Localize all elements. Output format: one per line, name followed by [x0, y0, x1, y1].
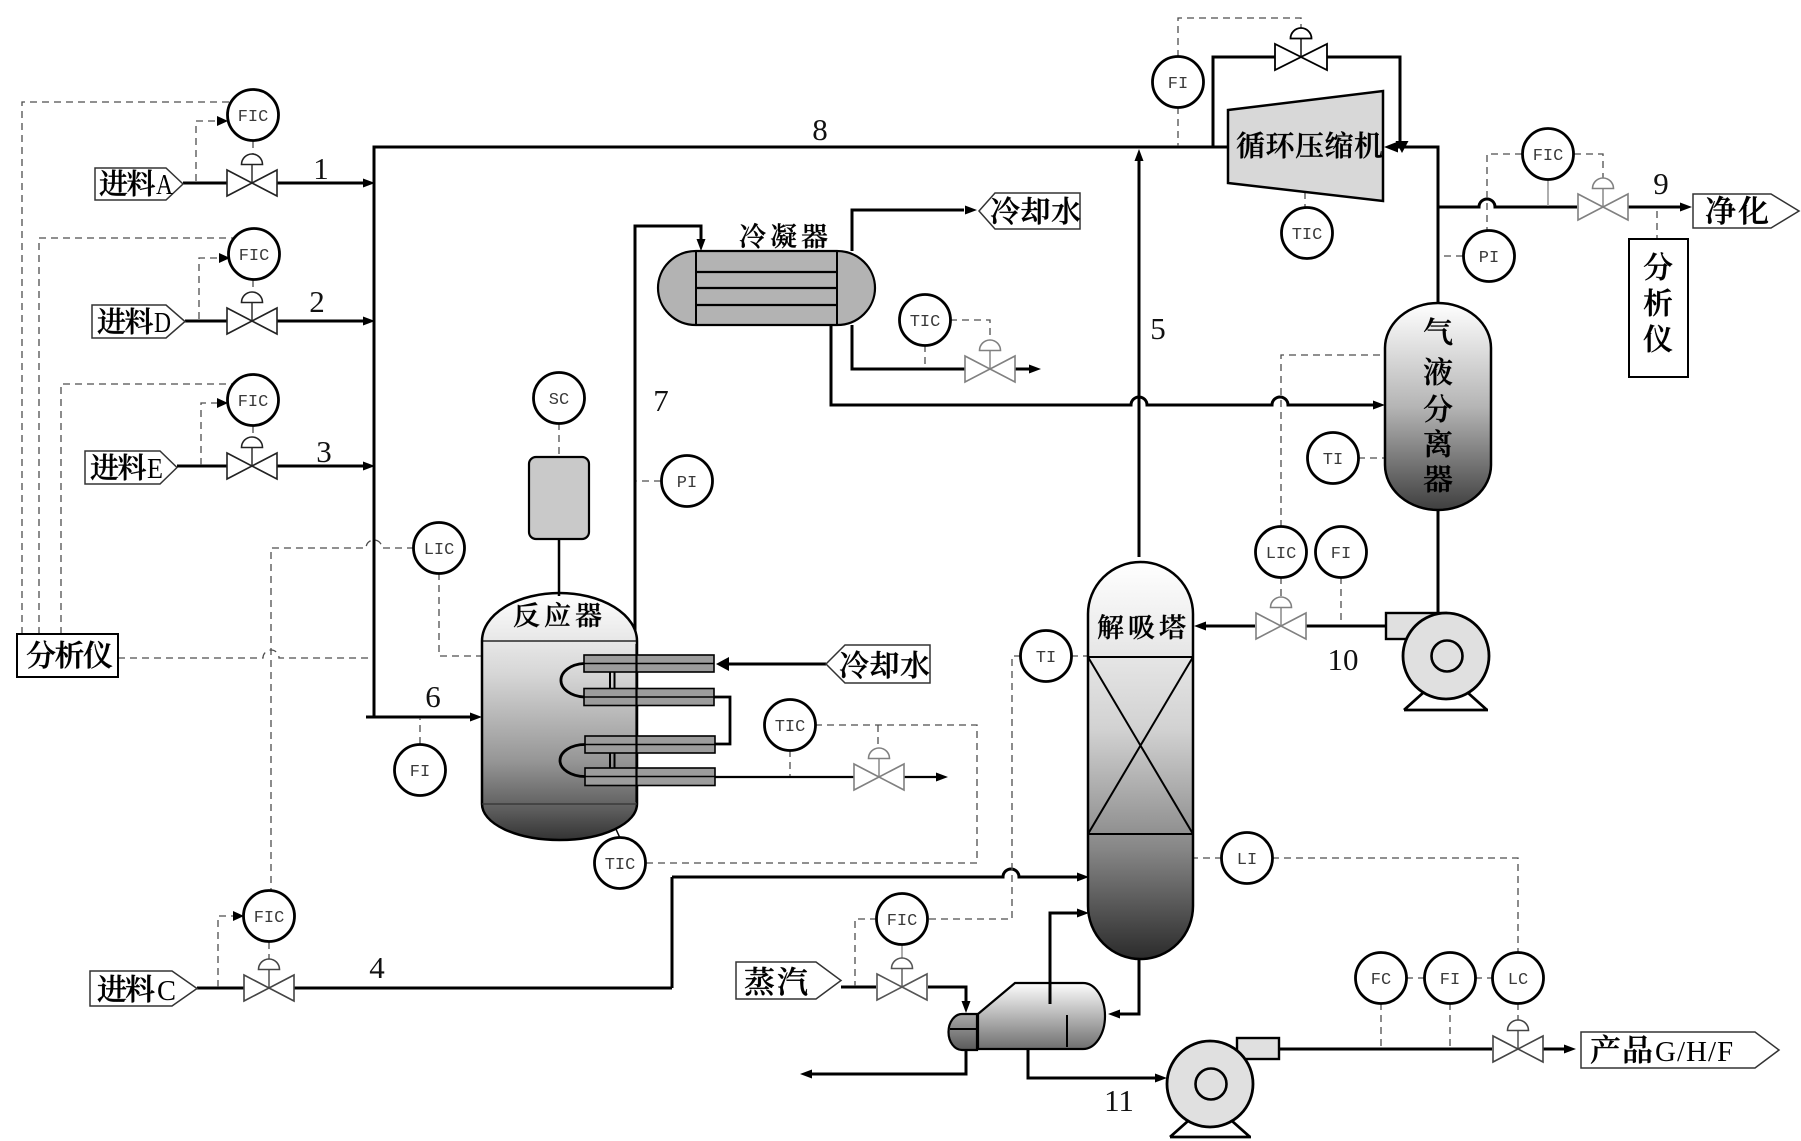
- signal LIC separator to valve 10: [1280, 577, 1282, 597]
- valve feed E: [227, 437, 277, 479]
- instrument FIC feed D: [229, 229, 280, 280]
- pipe feed A stream 1: [183, 179, 375, 188]
- signal FIC C to valve: [268, 942, 270, 962]
- instrument FC product: [1356, 953, 1407, 1004]
- pipe column feed stream 4 horizontal: [672, 869, 1089, 882]
- signal FIC stream 9 to valve: [1574, 154, 1603, 178]
- pipe recycle header stream 8 + main riser: [366, 147, 1228, 722]
- signal TIC coil loop: [646, 725, 977, 863]
- signal analyzer sample from pipe 6: [118, 650, 372, 658]
- pipe compressor bypass: [1213, 57, 1400, 147]
- signal FIC A to valve: [252, 141, 254, 157]
- pipe stream 7 reactor to condenser: [635, 226, 706, 637]
- svg-text:TI: TI: [1323, 451, 1343, 470]
- flag purification 净化: [1693, 194, 1799, 228]
- valve product LC: [1493, 1020, 1543, 1062]
- signal steam flow tap: [855, 919, 877, 986]
- signal analyzer to FIC feed D: [39, 238, 233, 634]
- pipe cooling water into reactor coil: [716, 657, 826, 671]
- flag steam 蒸汽: [736, 962, 841, 999]
- instrument SC stirrer: [534, 373, 585, 424]
- instrument TIC condenser: [900, 295, 951, 346]
- signal TI tap on separator: [1358, 457, 1384, 459]
- svg-text:A: A: [156, 169, 173, 201]
- flag product 产品G/H/F: [1581, 1032, 1779, 1068]
- svg-text:2: 2: [309, 284, 325, 319]
- instrument FI bypass: [1153, 57, 1204, 108]
- svg-text:FIC: FIC: [238, 393, 269, 412]
- svg-text:10: 10: [1328, 642, 1359, 677]
- svg-text:TIC: TIC: [1292, 226, 1323, 245]
- svg-text:TIC: TIC: [775, 718, 806, 737]
- pipe column overhead joining stream 8: [1135, 149, 1144, 557]
- flag feed D 进料D: [92, 305, 185, 339]
- signal TI on column to steam FIC: [928, 656, 1087, 919]
- pipe column bottoms to reboiler: [1108, 959, 1139, 1019]
- pipe steam inlet: [841, 987, 971, 1013]
- pipe reboiler vapor return: [1050, 909, 1089, 1005]
- instrument PI riser: [1464, 231, 1515, 282]
- signal PI tap on stream 7: [636, 480, 661, 482]
- svg-text:LI: LI: [1237, 851, 1257, 870]
- pipe feed D stream 2: [185, 317, 375, 326]
- vessel reactor 反应器: [482, 593, 637, 840]
- signal analyzer to FIC feed A: [22, 102, 229, 634]
- analyzer box right 分析仪: [1629, 239, 1688, 377]
- valve stream 10: [1256, 597, 1306, 639]
- svg-text:FIC: FIC: [239, 247, 270, 266]
- svg-text:G/H/F: G/H/F: [1655, 1036, 1734, 1068]
- svg-text:4: 4: [369, 950, 385, 985]
- pipe coil outlet through TIC valve: [714, 773, 948, 782]
- pipe separator bottoms to pump: [1437, 510, 1440, 614]
- instrument FI stream 6: [395, 745, 446, 796]
- instrument LC product: [1493, 953, 1544, 1004]
- pipe cooling water outlet from condenser: [852, 206, 977, 252]
- pipe stream 10 pump to column top: [1194, 622, 1386, 631]
- instrument FI product: [1425, 953, 1476, 1004]
- signal steam FIC to valve: [901, 944, 903, 958]
- instrument LI column: [1222, 833, 1273, 884]
- signal PI tap on riser: [1439, 255, 1463, 257]
- signal LIC level tap on separator: [1281, 355, 1384, 527]
- instrument PI stream 7: [662, 456, 713, 507]
- reactor cooling coil: [560, 644, 730, 802]
- valve stream 9: [1578, 178, 1628, 220]
- instrument LIC reactor: [414, 523, 465, 574]
- signal TIC thermowell on reactor bottom: [615, 827, 620, 838]
- pump P1 separator bottoms: [1386, 613, 1489, 710]
- signal FIC D to valve: [252, 280, 254, 295]
- signal flow tap feed A: [196, 116, 228, 181]
- pipe feed C stream 4: [197, 877, 672, 988]
- svg-text:PI: PI: [1479, 249, 1499, 268]
- instrument FIC steam: [877, 894, 928, 945]
- pipe stream 9 to purification: [1438, 199, 1692, 212]
- svg-text:FIC: FIC: [887, 912, 918, 931]
- instrument FIC feed C: [244, 891, 295, 942]
- pipe reboiler blowdown: [800, 1050, 966, 1079]
- valve feed C: [244, 959, 294, 1001]
- valve steam: [877, 958, 927, 1000]
- flag cooling water in 冷却水: [826, 645, 930, 683]
- signal reactor LIC to FIC C cascade: [271, 540, 414, 890]
- signal FIC stream 9 to PI: [1487, 154, 1522, 230]
- svg-text:SC: SC: [549, 391, 569, 410]
- flag feed C 进料C: [90, 971, 197, 1007]
- signal flow tap feed D: [199, 253, 230, 319]
- svg-text:8: 8: [812, 112, 828, 147]
- svg-text:5: 5: [1150, 311, 1166, 346]
- svg-text:LIC: LIC: [1266, 545, 1297, 564]
- pipe reboiler liquid to pump 11: [1028, 1049, 1167, 1083]
- signal SC to stirrer motor: [558, 423, 560, 456]
- signal condenser TIC loop: [925, 320, 990, 368]
- instrument FIC stream 9: [1523, 129, 1574, 180]
- pipe stream 5 condensate to separator: [831, 325, 1385, 410]
- pipe condensate vent through TIC valve: [852, 325, 1041, 374]
- valve feed D: [227, 292, 277, 334]
- instrument TIC reactor bottom: [595, 838, 646, 889]
- signal FC FI LC links: [1381, 978, 1518, 1048]
- valve feed A: [227, 154, 277, 196]
- svg-text:LC: LC: [1508, 971, 1528, 990]
- instrument FIC feed E: [228, 375, 279, 426]
- svg-text:PI: PI: [677, 474, 697, 493]
- svg-text:FIC: FIC: [238, 108, 269, 127]
- column 解吸塔: [1088, 562, 1193, 959]
- svg-text:1: 1: [313, 151, 329, 186]
- signal flow tap feed C: [218, 911, 244, 987]
- pipe feed E stream 3: [177, 462, 375, 471]
- svg-text:FC: FC: [1371, 971, 1391, 990]
- signal analyzer 2 sample: [1656, 211, 1658, 238]
- signal FIC 9 tap on pipe: [1547, 180, 1549, 206]
- signal FIC E to valve: [252, 426, 254, 440]
- stirrer shaft and motor: [529, 457, 589, 596]
- signal LIC level tap on reactor: [439, 573, 481, 656]
- flag cooling water out 冷却水: [979, 193, 1080, 229]
- svg-text:FI: FI: [1168, 75, 1188, 94]
- svg-text:TIC: TIC: [910, 313, 941, 332]
- analyzer box left 分析仪: [17, 634, 118, 677]
- valve coil outlet: [854, 748, 904, 790]
- svg-text:6: 6: [425, 679, 441, 714]
- separator vessel 气液分离器: [1385, 303, 1491, 510]
- pipe stream 6 into reactor: [374, 716, 470, 719]
- instrument TIC compressor: [1282, 208, 1333, 259]
- instrument TI separator: [1308, 433, 1359, 484]
- instrument FIC feed A: [228, 90, 279, 141]
- svg-text:11: 11: [1104, 1083, 1134, 1118]
- svg-text:FIC: FIC: [1533, 147, 1564, 166]
- svg-text:TIC: TIC: [605, 856, 636, 875]
- svg-text:C: C: [157, 975, 176, 1007]
- signal LI on column to LC: [1194, 858, 1518, 952]
- flag feed A 进料A: [95, 168, 183, 201]
- svg-text:7: 7: [653, 383, 669, 418]
- instrument LIC separator: [1256, 527, 1307, 578]
- svg-text:FI: FI: [410, 763, 430, 782]
- svg-text:D: D: [154, 307, 171, 339]
- svg-text:9: 9: [1653, 166, 1669, 201]
- signal flow tap feed E: [201, 398, 228, 465]
- pump P2 product pump 11: [1167, 1038, 1279, 1137]
- svg-text:TI: TI: [1036, 649, 1056, 668]
- svg-text:E: E: [147, 453, 163, 485]
- signal TIC on compressor: [1304, 192, 1306, 207]
- svg-text:FIC: FIC: [254, 909, 285, 928]
- signal FI tap on stream 6: [419, 718, 421, 744]
- condenser 冷凝器: [658, 223, 875, 325]
- flag feed E 进料E: [85, 451, 177, 485]
- svg-text:LIC: LIC: [424, 541, 455, 560]
- instrument TIC coil outlet: [765, 700, 816, 751]
- signal FI bypass loop: [1178, 18, 1301, 146]
- pipe product stream to valve: [1279, 1045, 1576, 1054]
- svg-text:FI: FI: [1331, 545, 1351, 564]
- svg-text:3: 3: [316, 434, 332, 469]
- pipe separator gas riser to compressor: [1384, 141, 1438, 303]
- instrument FI stream 10: [1316, 527, 1367, 578]
- valve compressor bypass: [1275, 28, 1327, 70]
- signal analyzer to FIC feed E: [61, 384, 233, 634]
- instrument TI column: [1021, 631, 1072, 682]
- svg-text:FI: FI: [1440, 971, 1460, 990]
- reboiler vessel: [949, 983, 1106, 1050]
- valve condensate vent: [965, 340, 1015, 382]
- signal FI tap on stream 10: [1340, 577, 1342, 625]
- compressor 循环压缩机: [1228, 91, 1383, 201]
